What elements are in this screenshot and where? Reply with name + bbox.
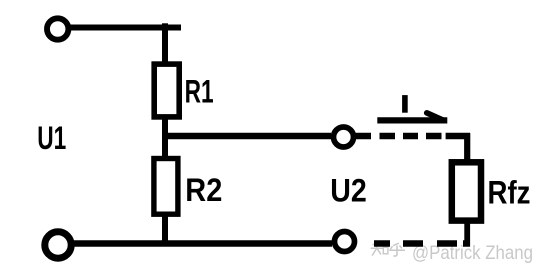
wire: Rfz bottom leg [464, 221, 470, 247]
terminal U2 bottom (open circle) [335, 232, 355, 252]
wire: middle tap to U2+ terminal [162, 133, 331, 140]
current arrow I (barb) [427, 113, 444, 121]
wire: stub down to R1 [162, 23, 168, 64]
terminal U2 top (open circle) [334, 127, 354, 147]
resistor R1 [154, 64, 179, 117]
svg-text:Rfz: Rfz [488, 174, 531, 210]
dashed wire: U2+ to Rfz top [353, 133, 470, 140]
terminal U1 top (open circle) [47, 18, 68, 39]
svg-text:R2: R2 [185, 172, 222, 208]
wire: Rfz top leg [464, 133, 470, 166]
label I [402, 95, 408, 113]
wire: R2 bottom stub [162, 214, 168, 246]
svg-text:U2: U2 [330, 173, 367, 209]
wire: bottom rail [70, 240, 332, 247]
wire: top-left terminal to R1 top corner [68, 25, 181, 31]
dashed wire: U2- to Rfz bottom [374, 240, 470, 247]
svg-text:@Patrick Zhang: @Patrick Zhang [412, 242, 533, 264]
current arrow I (shaft) [377, 117, 447, 123]
watermark 知乎 @Patrick Zhang [371, 242, 404, 256]
resistor R2 [154, 159, 178, 215]
wire: R1 bottom to R2 top [162, 116, 168, 161]
svg-text:R1: R1 [185, 73, 214, 109]
terminal U1 bottom (open circle) [45, 232, 71, 258]
svg-text:U1: U1 [37, 120, 66, 156]
resistor Rfz [452, 162, 481, 220]
